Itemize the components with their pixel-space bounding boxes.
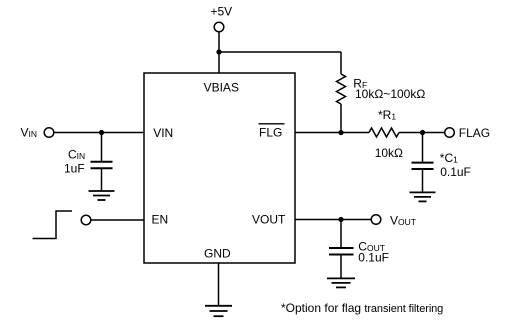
svg-text:1uF: 1uF	[64, 162, 85, 176]
svg-text:*Option for flag transient fil: *Option for flag transient filtering	[281, 301, 443, 315]
svg-text:0.1uF: 0.1uF	[440, 165, 471, 179]
svg-text:VOUT: VOUT	[252, 213, 286, 227]
svg-text:*C1: *C1	[440, 151, 458, 165]
svg-text:0.1uF: 0.1uF	[358, 251, 389, 265]
svg-text:VOUT: VOUT	[390, 214, 416, 228]
svg-text:VIN: VIN	[153, 126, 173, 140]
svg-text:10kΩ~100kΩ: 10kΩ~100kΩ	[355, 87, 425, 101]
svg-text:VIN: VIN	[21, 126, 38, 140]
svg-text:EN: EN	[152, 213, 169, 227]
svg-text:FLAG: FLAG	[459, 126, 490, 140]
svg-text:+5V: +5V	[211, 5, 233, 19]
svg-text:CIN: CIN	[68, 148, 85, 162]
svg-text:VBIAS: VBIAS	[204, 81, 239, 95]
svg-text:FLG: FLG	[259, 126, 282, 140]
svg-text:GND: GND	[204, 247, 231, 261]
svg-text:10kΩ: 10kΩ	[375, 146, 403, 160]
svg-text:*R1: *R1	[378, 108, 396, 122]
